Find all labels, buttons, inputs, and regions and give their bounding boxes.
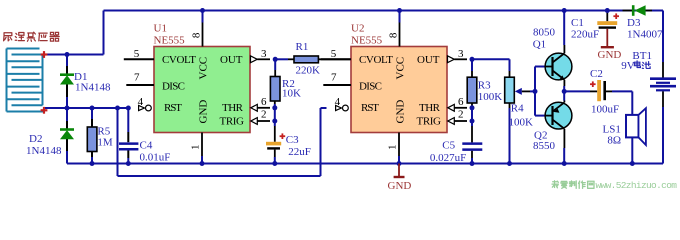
svg-text:8: 8: [190, 32, 202, 38]
svg-text:C2: C2: [590, 68, 603, 80]
svg-text:100uF: 100uF: [591, 103, 619, 115]
label R5: [97, 126, 110, 138]
node: U1 VCC junction: [200, 8, 205, 13]
svg-text:1: 1: [387, 145, 399, 151]
label BT1: [632, 50, 652, 62]
svg-text:C5: C5: [442, 140, 455, 152]
svg-text:0.01uF: 0.01uF: [140, 152, 171, 164]
U2 pin names and numbers: [331, 32, 464, 150]
svg-text:GND: GND: [395, 100, 407, 124]
svg-text:8Ω: 8Ω: [607, 135, 621, 147]
node: Q2 collector bottom junction: [562, 161, 567, 166]
svg-text:2: 2: [261, 109, 267, 121]
node: C1 top junction: [605, 8, 610, 13]
label U1: [154, 23, 167, 35]
svg-text:R1: R1: [296, 41, 309, 53]
capacitor C5: [462, 126, 482, 164]
wire: U2 out to R4: [472, 58, 510, 60]
battery BT1: [650, 11, 676, 164]
label D2: [29, 133, 42, 145]
label Q1: [533, 39, 546, 51]
svg-text:6: 6: [458, 96, 464, 108]
label Q2 value 8550: [533, 140, 556, 152]
svg-text:220uF: 220uF: [571, 28, 599, 40]
svg-text:8: 8: [387, 32, 399, 38]
node: U2 pin2 junction: [470, 119, 475, 124]
svg-text:TRIG: TRIG: [417, 116, 442, 128]
label LS1: [603, 123, 621, 135]
svg-text:R4: R4: [511, 103, 524, 115]
svg-text:THR: THR: [419, 102, 441, 114]
label C5: [442, 140, 455, 152]
label R1: [296, 41, 309, 53]
node: R5 top junction: [90, 106, 95, 111]
svg-text:7: 7: [134, 71, 140, 83]
svg-text:8050: 8050: [533, 27, 556, 39]
sensor terminal cross bottom: [41, 107, 48, 114]
wire: Q1/Q2 base net: [535, 67, 546, 116]
speaker LS1: [626, 108, 646, 163]
svg-text:7: 7: [331, 71, 337, 83]
node: Q1 collector top junction: [562, 8, 567, 13]
svg-text:VCC: VCC: [395, 57, 407, 80]
svg-text:9V: 9V: [621, 60, 635, 72]
label C5 value: [430, 152, 466, 164]
node: W2 drop junction: [115, 106, 120, 111]
node: U2 GND junction: [397, 161, 402, 166]
label D1: [74, 71, 87, 83]
resistor R1: [288, 56, 351, 63]
svg-text:C1: C1: [571, 17, 584, 29]
label C4 value: [140, 152, 171, 164]
label R3 value: [478, 91, 503, 103]
op-amp U1 NE555 body: [154, 47, 250, 133]
svg-text:1N4007: 1N4007: [627, 28, 663, 40]
resistor R5: [87, 108, 97, 164]
node: U2 pin3 junction: [470, 57, 475, 62]
label C4: [140, 139, 153, 151]
svg-text:CVOLT: CVOLT: [162, 54, 196, 66]
svg-text:OUT: OUT: [220, 54, 243, 66]
svg-text:1N4148: 1N4148: [26, 145, 62, 157]
capacitor C3: [266, 126, 281, 164]
node: D1 top junction: [65, 52, 70, 57]
wire: U1 out to R1: [275, 58, 288, 60]
svg-text:www.52zhizuo.com: www.52zhizuo.com: [596, 180, 678, 191]
diode D3: [623, 5, 653, 16]
R4 wiper arrow: [515, 88, 535, 95]
node: U1 pin3 junction: [273, 57, 278, 62]
capacitor C2: [564, 80, 632, 115]
label Q2: [534, 129, 547, 141]
diode D2: [60, 108, 74, 164]
svg-text:C4: C4: [140, 139, 153, 151]
wire: top bus left drop to sensor: [46, 11, 104, 55]
node: C4 bottom junction: [126, 161, 131, 166]
svg-text:4: 4: [138, 96, 144, 108]
svg-text:GND: GND: [598, 49, 622, 61]
svg-text:VCC: VCC: [198, 57, 210, 80]
node: C5 bottom junction: [470, 161, 475, 166]
svg-text:BT1: BT1: [632, 50, 652, 62]
node: U1 pin6 junction: [272, 105, 277, 110]
label C2 value: [591, 103, 619, 115]
svg-text:DISC: DISC: [359, 80, 382, 92]
svg-text:D2: D2: [29, 133, 42, 145]
node: C3 bottom junction: [272, 161, 277, 166]
svg-text:NE555: NE555: [351, 35, 383, 47]
svg-text:GND: GND: [388, 180, 412, 192]
label BT1 value 9V: [621, 60, 650, 72]
svg-text:U1: U1: [154, 23, 167, 35]
resistor R2: [270, 59, 280, 126]
C1 polarity mark: [613, 13, 619, 19]
svg-text:100K: 100K: [509, 116, 534, 128]
wire: ground bus W1: [67, 163, 663, 165]
svg-text:THR: THR: [222, 102, 244, 114]
U1 pin names and numbers: [134, 32, 267, 150]
svg-text:10K: 10K: [282, 88, 301, 100]
svg-text:5: 5: [331, 48, 337, 60]
svg-text:RST: RST: [361, 102, 379, 114]
transistor Q2: [545, 101, 572, 164]
node: D2 top junction: [65, 106, 70, 111]
wire: sensor bottom bus: [44, 107, 130, 109]
svg-text:1M: 1M: [97, 136, 113, 148]
node: R4 bottom junction: [507, 161, 512, 166]
node: base junction: [533, 89, 538, 94]
C2 polarity mark: [590, 81, 596, 87]
ground symbol (bottom): [388, 164, 412, 193]
label R2: [282, 78, 295, 90]
svg-text:8550: 8550: [533, 140, 556, 152]
svg-text:Q1: Q1: [533, 39, 546, 51]
resistor R3: [467, 59, 477, 126]
node: U2 VCC junction: [397, 8, 402, 13]
node: U2 pin6 junction: [470, 105, 475, 110]
svg-text:RST: RST: [164, 102, 182, 114]
diode D1: [60, 55, 74, 109]
svg-text:5: 5: [134, 48, 140, 60]
label D3: [627, 17, 641, 29]
label R1 value: [296, 64, 321, 76]
svg-text:R3: R3: [478, 80, 491, 92]
label LS1 value: [607, 135, 621, 147]
label D3 value: [627, 28, 663, 40]
label D1 value: [75, 82, 111, 94]
svg-text:TRIG: TRIG: [220, 116, 245, 128]
ground symbol (top): [598, 29, 622, 61]
svg-text:NE555: NE555: [154, 35, 186, 47]
capacitor C4: [119, 108, 138, 164]
node: emitter output junction: [562, 89, 567, 94]
label C3: [286, 134, 299, 146]
label: 尿湿感应器: [4, 32, 60, 41]
svg-text:2: 2: [458, 109, 464, 121]
resistor R4: [505, 59, 515, 163]
label U2: [351, 23, 364, 35]
watermark: [552, 180, 677, 191]
op-amp U2 NE555 body: [351, 47, 447, 133]
label C2: [590, 68, 603, 80]
label Q1 value 8050: [533, 27, 556, 39]
label U1 value NE555: [154, 35, 186, 47]
label R4: [511, 103, 524, 115]
sensor: wet-sensor electrode (尿湿感应器): [7, 49, 44, 112]
svg-text:LS1: LS1: [603, 123, 621, 135]
svg-text:4: 4: [335, 96, 341, 108]
node: U1 GND junction: [200, 161, 205, 166]
sensor terminal cross top: [41, 51, 48, 58]
svg-text:6: 6: [261, 96, 267, 108]
label D2 value: [26, 145, 62, 157]
svg-text:3: 3: [261, 48, 267, 60]
svg-text:DISC: DISC: [162, 80, 185, 92]
label C3 value: [288, 146, 311, 158]
svg-text:3: 3: [458, 48, 464, 60]
label U2 value NE555: [351, 35, 383, 47]
svg-text:1N4148: 1N4148: [75, 82, 111, 94]
svg-text:1: 1: [190, 145, 202, 151]
label R2 value: [282, 88, 301, 100]
wire: +9V top bus: [104, 10, 664, 12]
svg-text:GND: GND: [198, 100, 210, 124]
node: U1 pin2 junction: [272, 119, 277, 124]
U1 pins: [124, 11, 270, 164]
svg-text:22uF: 22uF: [288, 146, 311, 158]
label R5 value: [97, 136, 113, 148]
svg-text:U2: U2: [351, 23, 364, 35]
label R4 value: [509, 116, 534, 128]
svg-text:D3: D3: [627, 17, 641, 29]
svg-text:220K: 220K: [296, 64, 321, 76]
wire: reset return W2: [118, 108, 327, 176]
node: R5 bottom junction: [90, 161, 95, 166]
U2 pins: [321, 11, 467, 164]
C3 polarity mark: [280, 133, 286, 139]
svg-text:OUT: OUT: [417, 54, 440, 66]
svg-text:CVOLT: CVOLT: [359, 54, 393, 66]
label R3: [478, 80, 491, 92]
svg-text:C3: C3: [286, 134, 299, 146]
svg-text:100K: 100K: [478, 91, 503, 103]
capacitor C1: [597, 11, 617, 29]
transistor Q1: [545, 11, 572, 101]
node: C4 top junction: [126, 106, 131, 111]
label C1 value: [571, 28, 599, 40]
svg-text:0.027uF: 0.027uF: [430, 152, 466, 164]
label C1: [571, 17, 584, 29]
node: LS1 bottom junction: [630, 161, 635, 166]
